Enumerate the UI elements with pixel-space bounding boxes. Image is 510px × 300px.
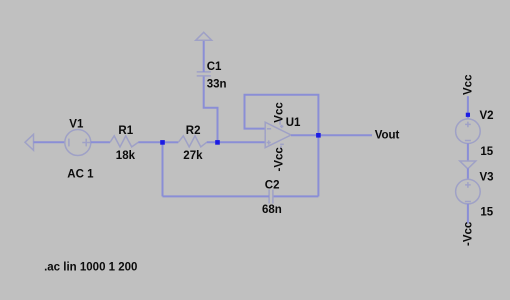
wire: ground to V1 (34, 141, 65, 143)
ground flag (apex down) between V2 and V3 (460, 161, 476, 169)
svg-text:68n: 68n (262, 204, 282, 216)
wire: V1 to R1 (91, 141, 110, 143)
wire: output down to feedback rail (317, 135, 319, 196)
svg-text:Vcc: Vcc (463, 74, 475, 95)
voltage source V3 (456, 179, 481, 204)
Vcc flag attachment dot (466, 113, 470, 117)
svg-text:18k: 18k (116, 150, 136, 162)
svg-text:.ac lin 1000 1 200: .ac lin 1000 1 200 (44, 262, 137, 274)
svg-text:V3: V3 (480, 171, 494, 183)
resistor R1 (110, 136, 138, 147)
wire: R2 to node B and on to op-amp noninverting input (207, 141, 265, 143)
svg-text:-Vcc: -Vcc (274, 147, 286, 172)
wire: bottom rail left of C2 (163, 195, 270, 197)
voltage source V2 (456, 119, 481, 144)
svg-text:AC 1: AC 1 (67, 169, 94, 181)
wire: R1 to node A (138, 141, 162, 143)
wire: V2 to ground (467, 143, 469, 161)
wire: Vcc flag to V2 (467, 96, 469, 119)
ground flag top (rotated 180, apex up) (196, 32, 212, 40)
svg-text:C2: C2 (265, 179, 280, 191)
svg-text:U1: U1 (286, 117, 301, 129)
svg-text:33n: 33n (207, 79, 227, 91)
node B junction dot (215, 140, 220, 145)
svg-text:Vcc: Vcc (274, 102, 286, 123)
voltage source V1 (65, 130, 91, 156)
node OUT junction dot (316, 133, 321, 138)
svg-text:27k: 27k (183, 150, 203, 162)
svg-text:R1: R1 (118, 125, 133, 137)
ground flag left (rotated, at V1 minus terminal) (25, 134, 34, 150)
svg-text:-Vcc: -Vcc (463, 221, 475, 246)
svg-text:V2: V2 (480, 110, 494, 122)
svg-text:Vout: Vout (375, 130, 400, 142)
op-amp U1 (265, 119, 291, 149)
capacitor C1 (197, 72, 211, 76)
resistor R2 (178, 136, 206, 147)
wire: feedback rail up to node A (162, 142, 164, 196)
wire: bottom rail right of C2 (273, 195, 319, 197)
wire: node A to R2 (163, 141, 179, 143)
svg-text:V1: V1 (69, 119, 84, 131)
svg-text:R2: R2 (186, 125, 201, 137)
wire: feedback loop from inverting input up and over to output (245, 95, 319, 136)
wire: op-amp output to Vout (291, 134, 372, 136)
node A junction dot (160, 140, 165, 145)
svg-text:15: 15 (480, 146, 493, 158)
wire: V3 to -Vcc flag (467, 204, 469, 224)
wire: node B up to C1 (204, 76, 218, 142)
capacitor C2 (269, 190, 273, 204)
wire: ground to V3 (467, 168, 469, 179)
wire: C1 to top ground (203, 40, 205, 72)
svg-text:C1: C1 (207, 61, 222, 73)
svg-text:15: 15 (480, 206, 493, 218)
